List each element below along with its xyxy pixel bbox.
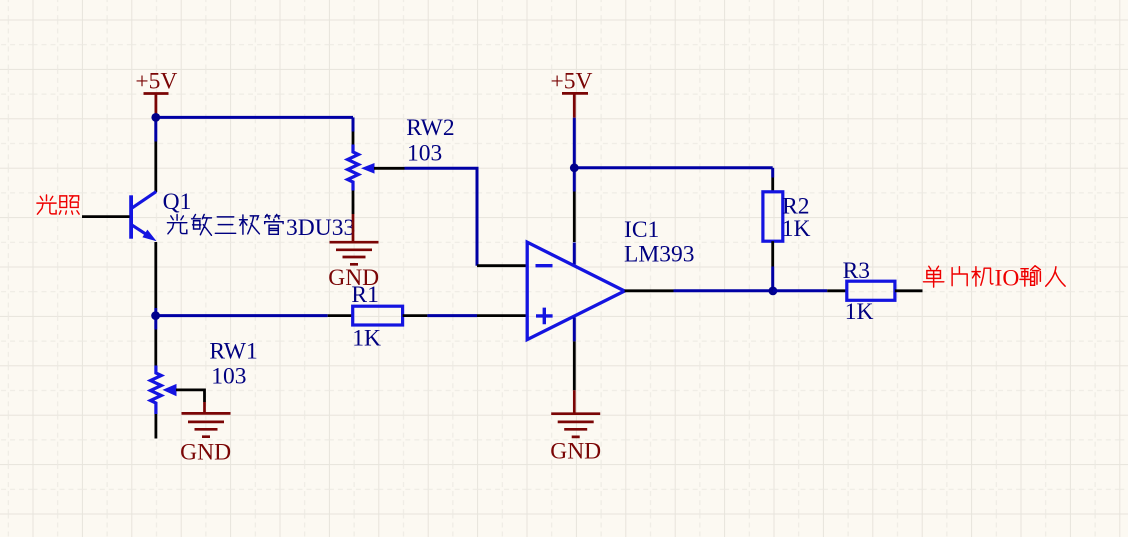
RW1 wiper arrow: [163, 384, 177, 396]
svg-text:RW1: RW1: [209, 338, 257, 364]
label 单片机IO输入 (red): [923, 266, 992, 287]
pin: Q1 base: [82, 215, 130, 218]
label 光敏三极管3DU33: [167, 214, 283, 235]
pin: Q1 emitter: [154, 242, 157, 308]
svg-text:3DU33: 3DU33: [286, 215, 355, 241]
node: output junction: [769, 287, 778, 296]
pin: R1 left: [328, 314, 353, 317]
pin: RW2 wiper lead: [374, 167, 405, 170]
pin: RW1 top: [154, 330, 157, 366]
wire: R2 bottom to output node: [771, 267, 774, 292]
pin: op-amp minus input: [477, 264, 527, 267]
pin: op-amp output: [625, 289, 674, 292]
op-amp minus sign: [536, 264, 553, 267]
svg-text:Q1: Q1: [163, 189, 192, 215]
wire: junction to R3: [773, 289, 827, 292]
wire: RW2 wiper to op-amp minus input: [405, 168, 478, 265]
wire: +5V junction to RW2 top (horizontal): [156, 116, 353, 119]
svg-text:LM393: LM393: [624, 241, 695, 267]
ground GND2 (below RW1 wiper): [182, 402, 231, 437]
pin: R2 top: [771, 178, 774, 192]
svg-text:IO: IO: [995, 266, 1020, 292]
svg-text:+5V: +5V: [551, 69, 593, 95]
svg-text:R1: R1: [351, 282, 378, 308]
wire: emitter node region (blue): [154, 308, 157, 330]
resistor R1: [353, 306, 403, 325]
svg-text:R3: R3: [843, 258, 870, 284]
label 光照 (red): [37, 195, 79, 214]
transistor Q1 (phototransistor): [131, 192, 156, 239]
wire stub: V- from symbol edge: [573, 318, 576, 342]
wire: output to R2 junction: [674, 289, 773, 292]
pin: IC1 V+ (pin 8): [573, 192, 576, 243]
pin: R3 left: [827, 289, 847, 292]
resistor R3: [847, 281, 895, 300]
node: emitter junction: [151, 311, 160, 320]
pin: RW1 bottom (open): [154, 414, 157, 439]
svg-text:GND: GND: [550, 438, 601, 464]
svg-text:103: 103: [211, 363, 246, 389]
op-amp plus sign: [536, 308, 553, 325]
pin: RW2 top: [352, 132, 355, 145]
resistor R2: [763, 192, 783, 241]
pin: op-amp plus input: [477, 314, 527, 317]
pin: IC1 V- (pin 4): [573, 341, 576, 390]
node: junction at +5V left: [151, 113, 160, 122]
potentiometer RW2: [348, 145, 359, 191]
svg-text:1K: 1K: [845, 299, 874, 325]
pin: R2 bottom: [771, 241, 774, 266]
svg-text:1K: 1K: [782, 216, 811, 242]
pin: R3 right (open end): [895, 289, 923, 292]
svg-text:RW2: RW2: [406, 115, 454, 141]
svg-text:GND: GND: [180, 440, 231, 466]
ground GND3 (below op-amp): [551, 390, 600, 437]
wire: R2 top elbow: [771, 168, 774, 178]
wire: junction to R2 top (horizontal): [574, 166, 772, 169]
node: junction at +5V right: [570, 163, 579, 172]
power +5V symbol (left): [144, 94, 169, 118]
op-amp IC1 triangle: [527, 242, 624, 339]
svg-text:103: 103: [407, 141, 442, 167]
RW2 wiper arrow: [361, 163, 375, 174]
svg-text:1K: 1K: [352, 325, 381, 351]
ground GND1 (below RW2): [330, 214, 379, 264]
svg-text:IC1: IC1: [624, 217, 659, 243]
wire: top wire elbow into RW2: [352, 117, 355, 131]
wire: +5V right down to IC pin 8: [573, 118, 576, 192]
wire: emitter node to R1 (horizontal): [156, 314, 328, 317]
pin: Q1 collector: [154, 142, 157, 193]
wire stub: V+ into symbol edge: [573, 243, 576, 265]
power +5V symbol (right): [562, 93, 588, 117]
potentiometer RW1: [151, 366, 162, 415]
pin: R1 right: [403, 314, 428, 317]
wire: junction down toward Q1 collector: [154, 117, 157, 141]
pin: RW2 bottom: [352, 191, 355, 215]
pin: RW1 wiper lead: [176, 390, 205, 402]
svg-text:+5V: +5V: [135, 69, 177, 95]
wire: R1 to op-amp plus input: [427, 314, 477, 317]
